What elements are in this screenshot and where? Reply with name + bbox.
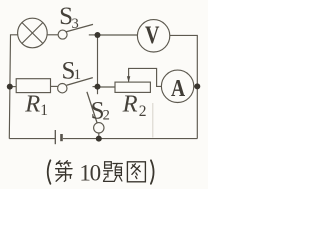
svg-text:R: R	[122, 91, 138, 118]
svg-text:3: 3	[72, 16, 79, 32]
svg-text:A: A	[171, 74, 185, 102]
svg-text:R: R	[24, 91, 40, 118]
svg-text:2: 2	[139, 103, 147, 120]
svg-text:V: V	[145, 21, 160, 49]
svg-text:1: 1	[40, 102, 48, 119]
svg-text:10: 10	[79, 161, 100, 186]
svg-text:2: 2	[103, 108, 110, 124]
svg-text:1: 1	[74, 67, 82, 83]
